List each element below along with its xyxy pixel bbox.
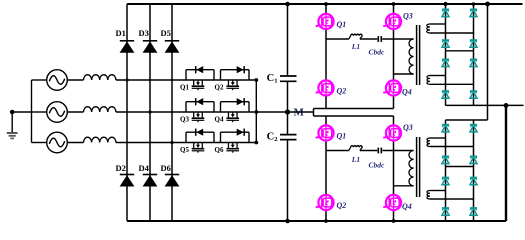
svg-text:Q3: Q3: [180, 116, 189, 124]
svg-text:D3: D3: [139, 28, 149, 38]
svg-text:D5: D5: [161, 28, 171, 38]
svg-text:Q4: Q4: [402, 202, 412, 211]
svg-text:D2: D2: [116, 163, 126, 173]
svg-text:Q2: Q2: [337, 87, 347, 96]
svg-text:L1: L1: [351, 155, 360, 164]
svg-text:Q1: Q1: [180, 84, 189, 92]
svg-text:Q4: Q4: [215, 116, 224, 124]
svg-text:Cbdc: Cbdc: [369, 161, 386, 170]
svg-text:D6: D6: [161, 163, 171, 173]
svg-text:D4: D4: [139, 163, 150, 173]
svg-text:Q4: Q4: [402, 88, 412, 97]
svg-text:Q1: Q1: [337, 20, 347, 29]
svg-text:Cbdc: Cbdc: [369, 48, 386, 57]
svg-text:Q3: Q3: [403, 12, 413, 21]
svg-text:D1: D1: [116, 28, 126, 38]
svg-text:Q1: Q1: [337, 132, 347, 141]
svg-text:Q2: Q2: [337, 201, 347, 210]
svg-text:Q6: Q6: [215, 146, 224, 154]
svg-text:L1: L1: [351, 42, 360, 51]
svg-text:Q5: Q5: [180, 146, 189, 154]
svg-text:Q2: Q2: [215, 84, 224, 92]
svg-text:Q3: Q3: [403, 123, 413, 132]
